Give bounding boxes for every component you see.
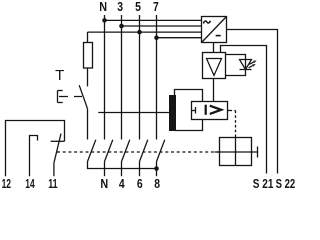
current transformer core (169, 95, 176, 131)
auxiliary switch blade (54, 134, 61, 164)
auxiliary switch frame terminal 12 (6, 121, 65, 177)
wire 5 vertical (139, 15, 141, 140)
wire N vertical (104, 15, 106, 140)
auxiliary fixed contact bar (51, 140, 65, 142)
wire CT secondary top (175, 90, 203, 102)
wire pole N lower terminal (104, 162, 106, 177)
AC symbol tilde (203, 21, 210, 24)
wire pole 6 lower terminal (139, 162, 141, 177)
trip solenoid K1 (220, 138, 252, 166)
wire resistor to test button (87, 68, 89, 86)
trip solenoid anchor bar (257, 147, 259, 158)
svg-text:T: T (55, 68, 64, 84)
wire CT secondary bottom (175, 120, 203, 131)
svg-text:5: 5 (135, 0, 141, 14)
auxiliary contact 14 with hook (30, 136, 38, 177)
svg-text:3: 3 (117, 0, 123, 14)
detector I> box (192, 102, 228, 120)
contact blade test pole (88, 140, 96, 162)
svg-text:S 21: S 21 (253, 176, 274, 191)
wire pole 8 lower terminal (156, 162, 158, 177)
wire test pole lower (88, 162, 157, 169)
wire LED loop (226, 55, 246, 76)
svg-text:N: N (100, 176, 108, 191)
svg-text:11: 11 (48, 176, 57, 191)
amplifier triangle (207, 59, 222, 76)
svg-text:4: 4 (119, 176, 125, 191)
svg-text:12: 12 (2, 176, 11, 191)
wire bus to resistor (87, 32, 89, 42)
wire 3 vertical (121, 15, 123, 140)
detector winding input (192, 110, 196, 112)
node N bus junction (102, 18, 107, 23)
node test wire to pole 8 (154, 166, 159, 171)
node 7 bus junction (154, 35, 159, 40)
svg-text:14: 14 (25, 176, 35, 191)
svg-text:6: 6 (137, 176, 143, 191)
svg-text:8: 8 (154, 176, 160, 191)
wire detector to trip coil dashed (228, 110, 230, 112)
wire amplifier to S21 (221, 46, 267, 174)
wire through summation transformer (98, 112, 169, 114)
node 3 bus junction (119, 24, 124, 29)
detector symbol I> (206, 105, 222, 115)
amplifier U2 (203, 53, 226, 79)
wire converter to amplifier (213, 43, 215, 53)
wire 5 bus to converter and test resistor (88, 31, 202, 33)
wire N bus to converter (105, 19, 202, 21)
contact blade pole N (105, 140, 113, 162)
svg-text:N: N (99, 0, 107, 14)
contact blade pole 7-8 (157, 140, 165, 162)
svg-text:S 22: S 22 (276, 176, 296, 191)
LED D1 (240, 60, 252, 70)
svg-text:7: 7 (153, 0, 159, 14)
wire terminal 11 (53, 163, 55, 176)
contact blade pole 3-4 (122, 140, 130, 162)
trip solenoid armature line (215, 151, 258, 153)
wire pole 4 lower terminal (121, 162, 123, 177)
wire 3 bus to converter (122, 25, 202, 27)
AC-DC converter U1 (202, 17, 227, 43)
wire test button to test contact (87, 109, 89, 140)
resistor test (84, 43, 93, 69)
push-button actuator symbol E (58, 91, 83, 103)
wire amplifier to detector (213, 79, 215, 102)
DC symbol minus (216, 35, 221, 37)
test button contact blade (79, 85, 87, 109)
trip solenoid divider (235, 138, 237, 166)
wire 7 bus to converter (157, 37, 202, 39)
LED arrows (249, 60, 257, 67)
node 5 bus junction (137, 30, 142, 35)
contact blade pole 5-6 (140, 140, 148, 162)
wire converter to S22 (227, 30, 278, 174)
wire 7 vertical (156, 15, 158, 140)
mechanical linkage dashed (57, 151, 220, 153)
